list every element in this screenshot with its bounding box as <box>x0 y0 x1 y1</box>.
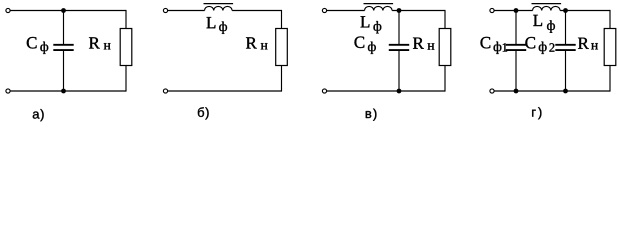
label Lф v <box>361 16 382 33</box>
resistor Rн b <box>276 29 288 66</box>
terminal input bottom g <box>490 89 494 93</box>
wire top-left v <box>327 10 365 12</box>
wire top-right b <box>232 10 281 12</box>
wire top-right v <box>392 10 445 12</box>
capacitor Cф2 <box>555 45 575 50</box>
wire top-left g <box>494 10 532 12</box>
inductor Lф v <box>364 4 394 11</box>
label Rн v <box>413 38 434 50</box>
wire right riser a <box>125 66 127 92</box>
label Cф1 <box>481 37 508 54</box>
wire Cф lead bottom v <box>398 50 400 91</box>
capacitor Cф1 <box>506 45 526 50</box>
label Rн a <box>89 37 111 49</box>
terminal input top b <box>163 8 167 12</box>
node junction top v <box>397 8 402 13</box>
wire bottom g <box>494 90 610 92</box>
wire bottom b <box>168 90 282 92</box>
wire Cф1 lead top <box>515 11 517 45</box>
inductor Lф g <box>532 4 562 11</box>
node junction top g1 <box>514 8 519 13</box>
node junction bottom a <box>61 89 66 94</box>
label Cф <box>27 37 48 54</box>
resistor Rн v <box>439 29 451 66</box>
wire Cф lead top <box>63 11 65 45</box>
label б) <box>198 107 209 119</box>
resistor Rн g <box>604 29 616 66</box>
label Lф b <box>207 17 228 34</box>
label Rн b <box>246 37 268 49</box>
label а) <box>33 109 44 121</box>
terminal input bottom a <box>6 89 10 93</box>
node junction top a <box>61 8 66 13</box>
label Lф g <box>533 15 555 33</box>
label Rн g <box>578 38 598 50</box>
inductor Lф b <box>204 4 234 11</box>
wire top-right g <box>560 10 610 12</box>
node junction bottom v <box>397 89 402 94</box>
node junction bottom g1 <box>514 89 519 94</box>
wire Cф2 lead bottom <box>565 50 567 91</box>
wire right riser g <box>609 66 611 92</box>
capacitor Cф v <box>389 45 409 50</box>
wire Cф lead top v <box>398 11 400 45</box>
resistor Rн a <box>120 29 132 66</box>
label Cф2 <box>525 37 554 54</box>
terminal input top a <box>6 8 10 12</box>
wire Cф lead bottom <box>63 50 65 91</box>
node junction top g2 <box>563 8 568 13</box>
wire bottom v <box>327 90 445 92</box>
wire top a <box>10 10 126 12</box>
label в) <box>366 109 377 121</box>
wire right drop a <box>125 10 127 29</box>
wire right drop b <box>281 10 283 29</box>
wire right riser v <box>444 66 446 92</box>
wire bottom a <box>10 90 126 92</box>
wire Cф1 lead bottom <box>515 50 517 91</box>
wire right riser b <box>281 66 283 92</box>
capacitor Cф <box>53 45 73 50</box>
wire Cф2 lead top <box>565 11 567 45</box>
wire right drop v <box>444 10 446 29</box>
label Cф v <box>355 37 376 54</box>
terminal input top g <box>490 8 494 12</box>
terminal input top v <box>322 8 326 12</box>
label г) <box>532 107 541 119</box>
node junction bottom g2 <box>563 89 568 94</box>
terminal input bottom b <box>163 89 167 93</box>
wire top-left b <box>168 10 205 12</box>
terminal input bottom v <box>322 89 326 93</box>
wire right drop g <box>609 10 611 29</box>
